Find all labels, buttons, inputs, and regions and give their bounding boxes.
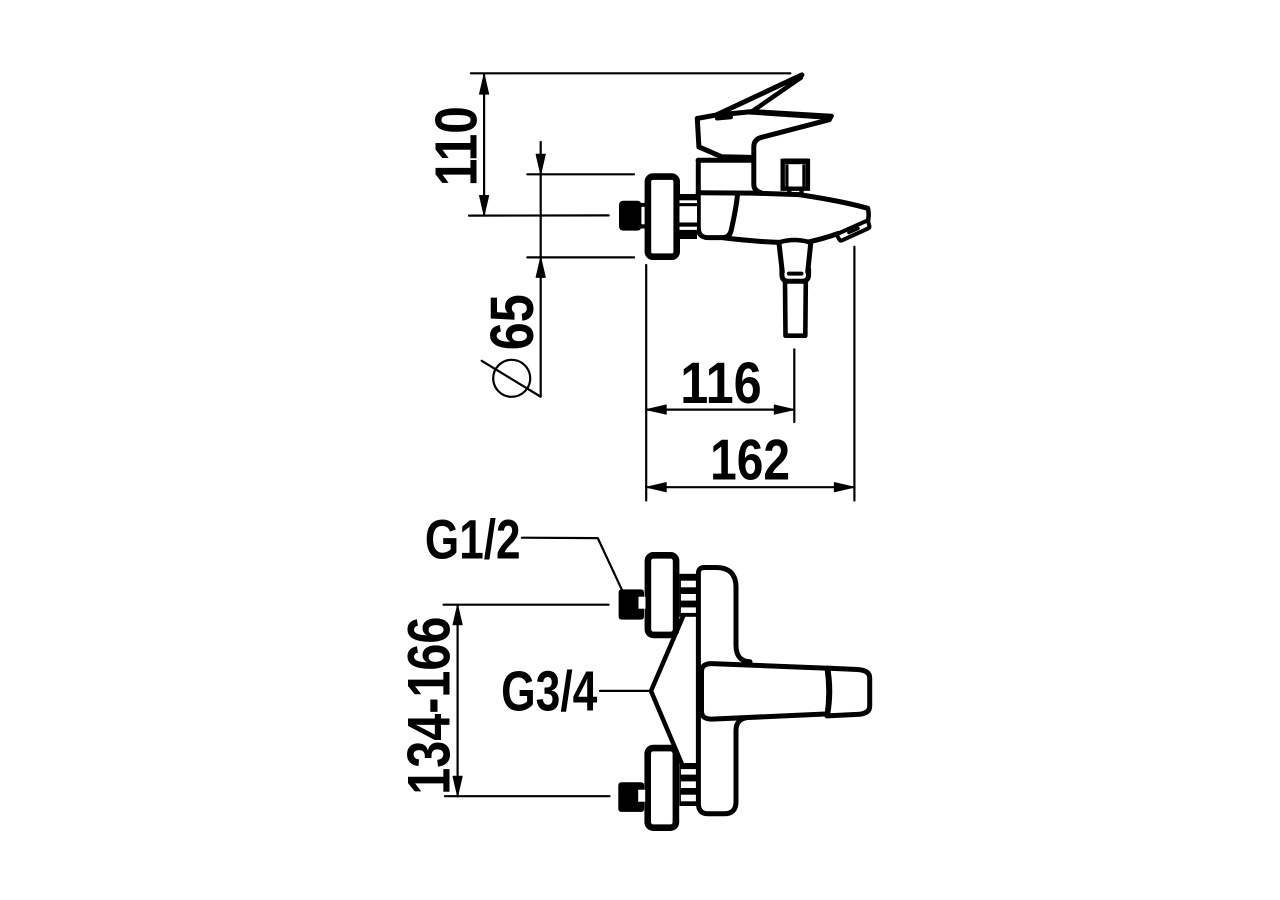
- cartridge sleeve outline: [698, 160, 737, 237]
- svg-text:G3/4: G3/4: [501, 661, 598, 724]
- diameter symbol circle: [493, 360, 530, 397]
- dimension 65 arrow up: [536, 257, 545, 277]
- black union nut side view: [619, 201, 645, 231]
- handle lever blade inner edge: [752, 78, 801, 112]
- cartridge band top line: [698, 158, 752, 163]
- extension line left shared 116 162: [645, 265, 647, 501]
- label G1/2: [425, 509, 521, 571]
- svg-text:116: 116: [680, 351, 761, 416]
- dimension text 116: [680, 351, 761, 416]
- svg-text:65: 65: [478, 294, 546, 350]
- diameter symbol slash: [482, 361, 541, 397]
- spout bottom hump over tube: [779, 240, 809, 242]
- dimension 116 line: [646, 409, 794, 411]
- body dome outline: [754, 120, 830, 193]
- shower tube flare bottom: [782, 269, 809, 281]
- dimension 134-166 arrow down: [453, 776, 462, 796]
- aerator outline: [837, 221, 869, 241]
- leader G3/4: [600, 690, 650, 692]
- union nut plan bottom: [618, 782, 645, 812]
- leader G1/2: [522, 538, 622, 590]
- axis centerline left: [469, 214, 609, 216]
- svg-text:162: 162: [710, 428, 790, 492]
- handle separation line plan view: [828, 668, 830, 714]
- wall flange plan top: [648, 555, 676, 635]
- threaded stub side view: [680, 194, 698, 239]
- dimension 162 arrow left: [646, 483, 666, 492]
- dimension text 134-166: [396, 617, 463, 795]
- dimension 116 arrow left: [646, 405, 666, 414]
- handle arm plan view: [702, 664, 829, 720]
- handle rear prong bottom edge: [749, 112, 830, 118]
- dimension 110 arrow down: [480, 196, 489, 216]
- body outlet diagonals: [651, 617, 683, 767]
- handle cap split tick: [717, 117, 731, 118]
- dimension 134-166 arrow up: [453, 605, 462, 625]
- handle knob plan view: [827, 668, 870, 716]
- dimension 110 extension line top: [471, 72, 791, 74]
- body slab plan view: [698, 568, 750, 814]
- shower tube right edge: [808, 242, 811, 272]
- svg-text:110: 110: [422, 106, 489, 186]
- dimension 65 extension line top: [527, 173, 634, 175]
- dimension text 110: [422, 106, 489, 186]
- threaded stub plan top: [679, 574, 698, 617]
- handle cap bottom wedge: [699, 147, 752, 158]
- diverter knob: [783, 159, 809, 195]
- shower tube left edge: [779, 242, 782, 272]
- dimension 162 arrow right: [834, 483, 854, 492]
- spout top edge: [698, 193, 868, 209]
- dimension 65 extension line bottom: [527, 256, 634, 258]
- shower lower tube: [785, 282, 806, 336]
- dimension text 162: [710, 428, 790, 492]
- dimension 134-166 line: [457, 605, 459, 797]
- dimension 110 line: [483, 74, 485, 215]
- label G3/4: [501, 661, 598, 724]
- spout bottom edge left: [724, 238, 779, 243]
- threaded stub plan bottom: [679, 763, 698, 806]
- extension line spout tip 162: [853, 247, 855, 501]
- handle lever cap top edge: [697, 112, 752, 119]
- wall flange side view: [648, 177, 677, 257]
- union nut plan top: [619, 589, 646, 619]
- dimension 134-166 extension line top: [444, 604, 609, 606]
- spout bottom edge right: [809, 233, 839, 242]
- handle cap left edge: [697, 118, 699, 146]
- handle lever blade top edge: [716, 75, 802, 115]
- dimension 116 arrow right: [774, 405, 794, 414]
- dimension 65 line: [540, 142, 542, 397]
- spout right end edge: [866, 208, 871, 226]
- dimension 110 arrow up: [480, 74, 489, 94]
- extension line shower axis 116: [793, 349, 795, 422]
- dimension text 65: [478, 294, 546, 350]
- dimension 65 arrow down: [536, 154, 545, 174]
- dimension 134-166 extension line bottom: [445, 795, 610, 797]
- svg-text:G1/2: G1/2: [425, 509, 521, 571]
- handle rear prong top edge: [752, 111, 832, 116]
- aerator slot: [849, 228, 858, 232]
- dimension 162 line: [646, 486, 854, 488]
- svg-text:134-166: 134-166: [396, 617, 463, 795]
- shower tube inner dash: [789, 272, 802, 276]
- wall flange plan bottom: [648, 748, 676, 828]
